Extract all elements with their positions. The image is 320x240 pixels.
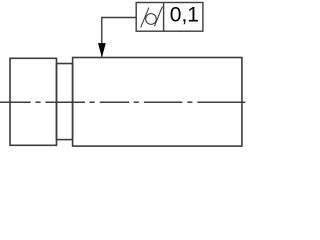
shaft left section: [10, 58, 57, 145]
leader line: [102, 18, 136, 57]
cylindricity symbol: [141, 7, 163, 28]
frame cell divider: [163, 3, 165, 32]
feature control frame: [136, 3, 203, 32]
svg-text:0,1: 0,1: [170, 4, 199, 27]
centerline (dash-dot): [0, 101, 245, 103]
shaft right section: [73, 58, 242, 147]
leader arrowhead: [98, 43, 106, 57]
shaft middle step: [57, 64, 73, 140]
